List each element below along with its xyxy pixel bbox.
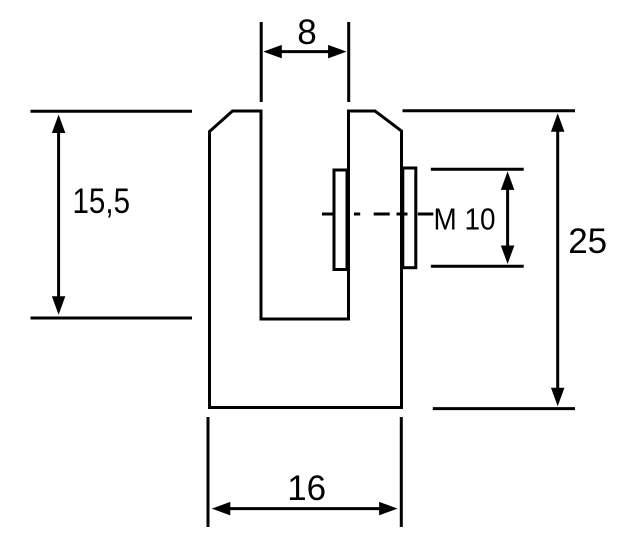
- svg-text:8: 8: [297, 13, 316, 52]
- svg-text:25: 25: [568, 222, 607, 261]
- svg-text:M 10: M 10: [434, 201, 496, 236]
- svg-text:16: 16: [287, 469, 326, 508]
- svg-text:15,5: 15,5: [73, 182, 131, 221]
